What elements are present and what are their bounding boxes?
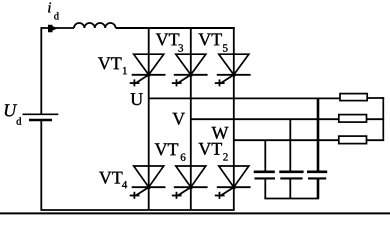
wire top bus left segment [41,27,75,29]
wire R-W right lead [367,139,385,141]
thyristor VT5 [215,54,251,86]
thyristor VT3 [172,54,208,86]
thyristor VT6 [172,166,208,199]
label i_d [48,2,59,19]
wire capacitor common rail [264,198,319,200]
wire R-V right lead [367,118,385,120]
capacitor C1 [254,172,275,179]
wire phase W line [234,139,339,141]
label VT5 [198,34,227,52]
thyristor VT4 [130,166,166,199]
node V [172,113,185,125]
wire phase V line [191,118,339,120]
wire bridge leg 2 [190,27,192,210]
wire capacitor C2 bottom stub [289,178,291,198]
thyristor VT1 [130,54,166,86]
wire top-left vertical from top bus down to source [40,27,42,114]
wire capacitor C3 top stub [317,98,320,170]
wire capacitor C2 top stub [289,119,291,170]
label VT1 [98,57,127,74]
inductor L [74,23,116,28]
wire load star rail [382,97,384,141]
wire top bus right segment [116,27,235,29]
resistor load R-U [340,94,367,101]
wire capacitor C3 bottom stub [317,178,320,198]
wire capacitor C1 bottom stub [264,178,266,198]
capacitor C2 [279,172,303,179]
dc source Ud short plate [29,119,52,122]
dc source Ud long plate [23,113,59,115]
wire phase U line [149,97,341,99]
current arrow i_d [48,25,58,33]
wire R-U right lead [367,97,384,99]
thyristor VT2 [215,166,251,199]
capacitor C3 [307,172,327,179]
label VT4 [99,172,127,189]
label Ud [5,104,21,124]
wire bottom rail [41,209,235,211]
wire capacitor C1 top stub [264,140,266,170]
label VT2 [199,143,228,161]
document bottom rule [0,212,390,214]
resistor load R-V [339,115,367,123]
label VT3 [156,34,183,52]
resistor load R-W [339,136,367,144]
wire bridge leg 1 [148,27,150,210]
label VT6 [155,143,186,160]
node U [131,93,143,105]
node W [212,127,229,139]
wire bridge leg 3 [233,27,235,210]
wire left vertical below source [40,120,42,211]
